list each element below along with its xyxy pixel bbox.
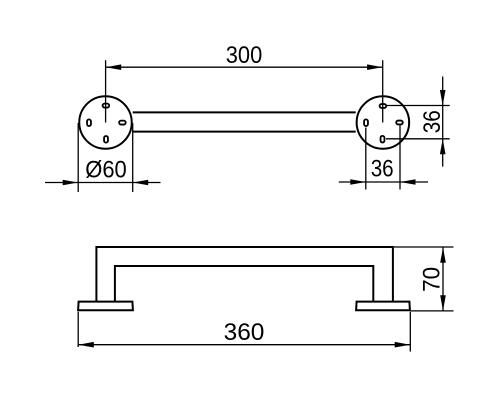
dim 70 bottom arrowhead [440, 295, 446, 311]
dim 360 right arrowhead [395, 342, 411, 348]
front view bar inner outline [115, 266, 373, 301]
bar top view top edge [133, 111, 356, 113]
dim 70 dimension line [442, 247, 444, 311]
dim 360 dimension line [78, 344, 410, 346]
dim O60 left extension line [77, 123, 79, 192]
dim 36 vertical top arrowhead [440, 90, 446, 106]
dim 36 vertical bottom extension line [386, 138, 450, 140]
dim 300 right arrowhead [367, 64, 383, 70]
dim 36 bottom left extension line [365, 128, 367, 190]
dim 36 bottom right extension line [399, 126, 401, 190]
dim 300 left arrowhead [106, 64, 122, 70]
svg-text:Ø60: Ø60 [85, 157, 127, 184]
dim 70 top extension line [394, 246, 454, 248]
left flange slot N [103, 104, 110, 108]
dim 360 left arrowhead [78, 342, 94, 348]
dim 36 bottom left arrowhead [350, 179, 366, 185]
dim O60 right arrowhead [133, 180, 149, 186]
left flange slot E [119, 121, 126, 125]
dim O60 right extension line [132, 123, 134, 192]
left flange slot W [87, 119, 91, 126]
dim O60 left arrowhead [63, 180, 78, 186]
front view left base plate [78, 302, 133, 311]
dim 360 right extension line [409, 312, 411, 352]
left flange circle [79, 96, 132, 149]
dim 300 left extension line [105, 60, 107, 122]
front view bar outer outline [96, 247, 393, 301]
dim O60 dimension line [45, 182, 161, 184]
front view right base plate [356, 302, 410, 311]
svg-text:300: 300 [226, 42, 263, 69]
svg-text:36: 36 [371, 156, 394, 183]
svg-text:36: 36 [419, 110, 446, 133]
dim 70 bottom extension line [411, 310, 454, 312]
dim 36 vertical bottom arrowhead [440, 139, 446, 155]
dim 300 right extension line [382, 60, 384, 122]
dim 36 bottom dimension line [339, 181, 428, 183]
bar top view bottom edge [133, 131, 356, 133]
left flange slot S [104, 136, 108, 143]
dim 300 dimension line [106, 66, 383, 68]
right flange circle [357, 96, 410, 149]
dim 36 bottom right arrowhead [400, 179, 416, 185]
right flange slot S [381, 136, 385, 143]
svg-text:70: 70 [418, 267, 445, 292]
dim 70 top arrowhead [440, 247, 446, 263]
dim 36 vertical top extension line [387, 105, 450, 107]
right flange slot W [364, 119, 368, 126]
dim 36 vertical dimension line [442, 77, 444, 167]
dim 360 left extension line [77, 312, 79, 347]
svg-text:360: 360 [224, 319, 265, 346]
right flange slot N [380, 104, 387, 108]
right flange slot E [396, 121, 403, 125]
